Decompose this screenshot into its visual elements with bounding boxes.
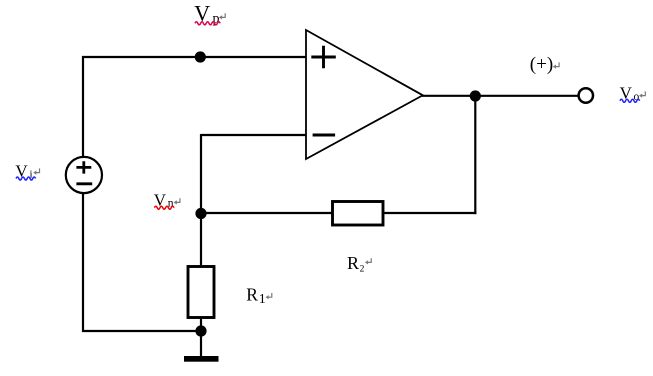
op-amp + input symbol [311,46,336,68]
blue squiggle under Vi [16,177,36,180]
wire feedback vertical from output junction down [474,96,476,214]
voltage source Vi circle [66,157,102,193]
op-amp - input symbol [313,134,336,137]
resistor R1 body [188,267,214,318]
svg-text:1: 1 [259,292,266,307]
resistor R2 body [333,202,384,226]
svg-text:R: R [347,253,359,273]
wire output to terminal [422,95,578,97]
red squiggle under Vp [195,22,220,25]
wire top: Vp node wire from source top corner to op-amp + input [82,56,306,58]
wire left upper: corner down to source + terminal [82,56,84,157]
node Vp junction dot [195,51,206,62]
wire R1 bottom to ground [200,318,202,356]
wire bottom: corner to R1 bottom junction [82,330,202,332]
wire inverting input horizontal [201,134,306,136]
voltage source + sign [76,161,91,173]
node Vn junction dot [195,208,206,219]
svg-text:2: 2 [360,265,365,275]
svg-text:(+): (+) [530,54,553,75]
node output junction dot [470,90,481,101]
wire Vn node down to R1 top [200,213,202,266]
node R1-ground junction dot [195,325,206,336]
ground [184,356,219,362]
wire R2 right to feedback corner [384,212,476,214]
op-amp U1 triangle [306,30,423,159]
wire Vn node to R2 left [201,212,332,214]
wire left lower: source - terminal down to bottom corner [82,193,84,332]
voltage source - sign [76,182,92,185]
blue squiggle under Vo [620,99,640,102]
svg-text:R: R [246,284,258,304]
red squiggle under Vn [154,206,174,209]
output terminal circle [579,88,593,102]
wire inverting input vertical riser from Vn node [200,134,202,214]
